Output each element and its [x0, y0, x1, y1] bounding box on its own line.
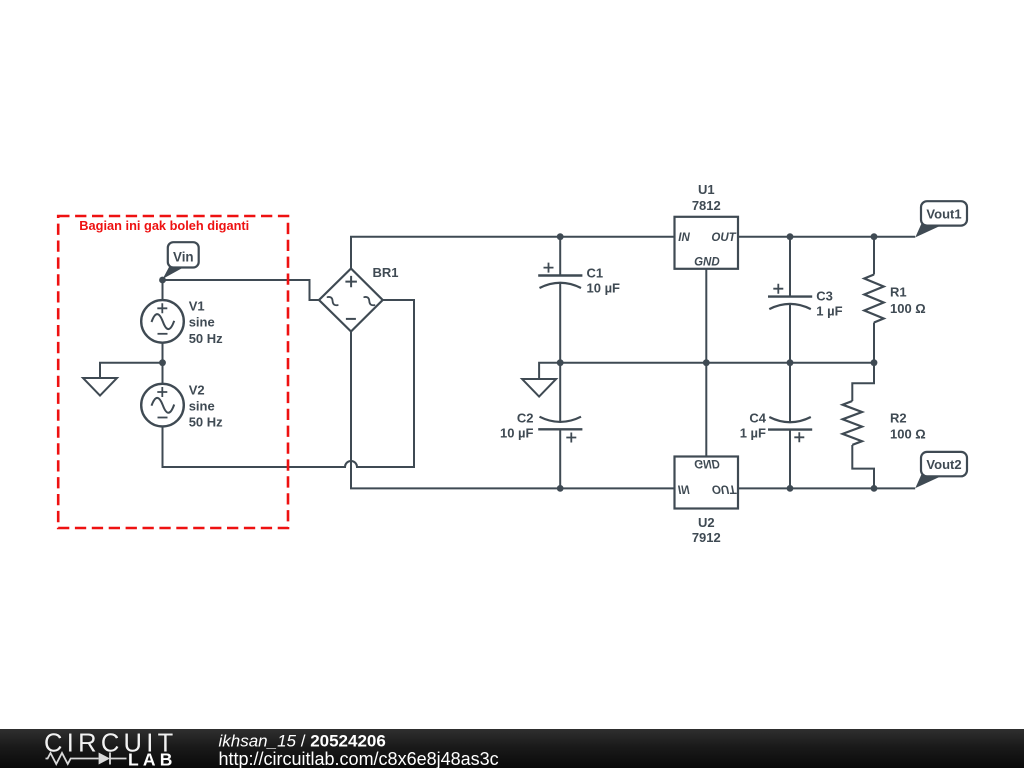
regulator U1 [675, 182, 739, 269]
voltage source V1 [141, 300, 184, 343]
svg-text:C2: C2 [517, 411, 534, 426]
svg-text:IN: IN [678, 483, 690, 495]
wire U1 GND pin [705, 269, 707, 363]
svg-text:U2: U2 [698, 515, 715, 530]
capacitor C4 [768, 417, 812, 442]
svg-text:ikhsan_15 / 20524206: ikhsan_15 / 20524206 [219, 732, 386, 751]
svg-text:GND: GND [694, 256, 720, 268]
svg-text:Vout2: Vout2 [926, 457, 961, 472]
svg-text:Vin: Vin [173, 249, 194, 264]
wire R2 jog leads [852, 363, 874, 489]
CircuitLab logo [44, 730, 178, 770]
wire C3 leads [789, 237, 791, 363]
svg-text:IN: IN [678, 232, 690, 244]
svg-text:BR1: BR1 [373, 265, 399, 280]
ground at mid rail [522, 379, 556, 397]
svg-text:Bagian ini gak boleh diganti: Bagian ini gak boleh diganti [79, 218, 249, 233]
wire ground stub mid [539, 363, 560, 379]
red annotation box [58, 216, 288, 528]
wire C1 leads [559, 237, 561, 363]
svg-text:sine: sine [189, 399, 215, 414]
svg-text:C1: C1 [587, 266, 604, 281]
capacitor C2 [538, 417, 582, 443]
regulator U2 (rotated 180) [675, 457, 739, 545]
wire bridge bottom lead and bottom rail to U2 [351, 332, 675, 489]
svg-text:R2: R2 [890, 411, 907, 426]
wire U2 GND pin [705, 363, 707, 457]
svg-text:OUT: OUT [712, 483, 737, 495]
svg-text:C4: C4 [749, 411, 766, 426]
wire U2 OUT to Vout2 [738, 487, 915, 489]
footer bar [0, 729, 1024, 768]
svg-text:100 Ω: 100 Ω [890, 301, 926, 316]
wire R1 leads [873, 237, 875, 363]
wire bridge top lead and top rail to U1 [351, 237, 675, 269]
net flag Vout2 [915, 452, 967, 488]
wire ground stub left [100, 363, 163, 378]
svg-text:Vout1: Vout1 [926, 206, 961, 221]
svg-text:http://circuitlab.com/c8x6e8j4: http://circuitlab.com/c8x6e8j48as3c [219, 749, 499, 768]
wire U1 OUT to Vout1 [738, 236, 915, 238]
svg-text:GND: GND [694, 457, 720, 469]
resistor R1 [864, 275, 883, 323]
svg-text:U1: U1 [698, 182, 715, 197]
svg-text:50 Hz: 50 Hz [189, 331, 223, 346]
wire V2 bottom to bridge right vertex (with hop) [163, 300, 415, 467]
node junction dots [159, 233, 877, 492]
net flag Vin [163, 242, 199, 279]
wire V1 top lead [162, 280, 164, 300]
resistor R2 [843, 401, 862, 445]
capacitor C1 [538, 263, 582, 288]
svg-text:50 Hz: 50 Hz [189, 415, 223, 430]
svg-text:1 µF: 1 µF [740, 426, 766, 441]
svg-text:100 Ω: 100 Ω [890, 427, 926, 442]
svg-text:7912: 7912 [692, 530, 721, 545]
svg-text:OUT: OUT [711, 232, 736, 244]
svg-text:V2: V2 [189, 382, 205, 397]
svg-text:V1: V1 [189, 299, 205, 314]
wire Vin node to bridge left [163, 280, 320, 300]
capacitor C3 [768, 284, 812, 309]
svg-text:10 µF: 10 µF [587, 281, 621, 296]
svg-text:1 µF: 1 µF [816, 304, 842, 319]
svg-text:C3: C3 [816, 289, 833, 304]
svg-text:LAB: LAB [128, 750, 177, 769]
wire C2 leads [559, 363, 561, 489]
svg-text:7812: 7812 [692, 198, 721, 213]
wire C4 leads [789, 363, 791, 489]
bridge rectifier BR1 [319, 269, 383, 332]
svg-text:sine: sine [189, 315, 215, 330]
ground near V1/V2 junction [83, 378, 117, 396]
net flag Vout1 [915, 201, 967, 237]
voltage source V2 [141, 384, 184, 427]
wire V1-V2 junction [162, 343, 164, 384]
wire mid ground rail [560, 362, 874, 364]
svg-text:R1: R1 [890, 285, 907, 300]
svg-text:10 µF: 10 µF [500, 426, 534, 441]
